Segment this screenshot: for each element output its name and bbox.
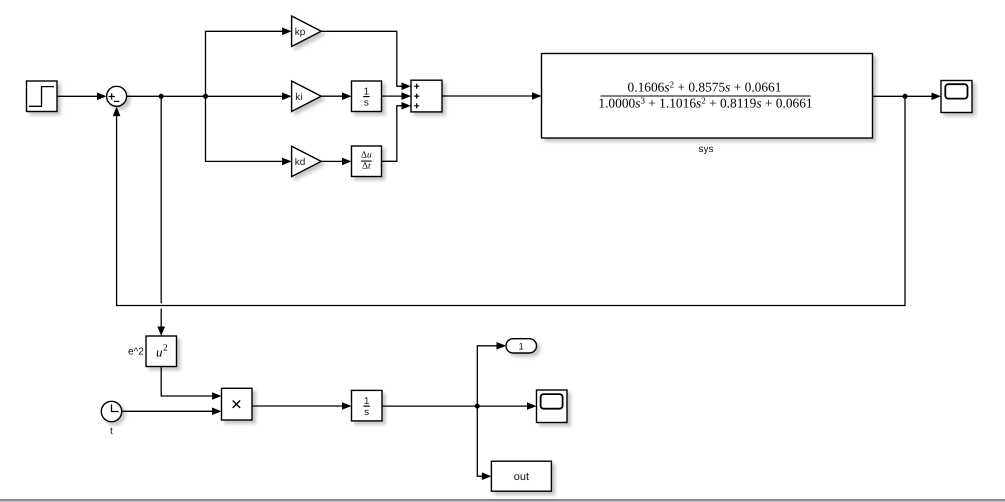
wire step to sum — [57, 93, 107, 101]
wire sum to branch node (error signal) — [127, 93, 292, 101]
gain ki — [292, 81, 322, 112]
wire kd to derivative — [321, 158, 351, 166]
square block u^2 — [146, 336, 177, 367]
outport 1 — [506, 339, 537, 353]
wire u^2 to product — [161, 367, 221, 400]
integrator block 1/s bottom — [352, 390, 383, 421]
node dot output — [903, 94, 908, 99]
wire node to out block — [477, 406, 491, 480]
wire sum2 to plant — [442, 92, 542, 100]
svg-text:e^2: e^2 — [128, 347, 144, 358]
svg-text:2: 2 — [163, 344, 168, 354]
wire branch to kd — [206, 96, 292, 165]
wire integrator to sum2 — [382, 92, 412, 100]
out block — [491, 461, 551, 491]
svg-text:u: u — [156, 345, 163, 360]
svg-text:t: t — [110, 426, 113, 437]
wire ki to integrator — [321, 92, 351, 100]
svg-text:sys: sys — [699, 144, 714, 155]
svg-text:1: 1 — [364, 396, 370, 407]
label sys — [699, 144, 714, 155]
svg-text:Δt: Δt — [362, 162, 371, 172]
clock block — [101, 401, 121, 421]
step source block — [27, 81, 58, 112]
wire clock to product — [122, 408, 222, 416]
wire derivative to sum2 — [382, 102, 412, 161]
sum block S2 — [411, 80, 442, 112]
node dot e-branch — [159, 94, 164, 99]
svg-text:1: 1 — [364, 86, 370, 97]
transfer function plant sys — [542, 54, 873, 139]
label e^2 — [128, 347, 144, 358]
svg-text:s: s — [364, 97, 369, 108]
gain kp — [292, 16, 322, 47]
svg-text:ki: ki — [295, 92, 302, 103]
feedback wire — [113, 96, 905, 305]
bottom window border — [0, 499, 1005, 502]
wire plant to scope — [873, 93, 942, 101]
wire branch to kp — [206, 28, 292, 97]
svg-text:1.0000s3 + 1.1016s2 + 0.8119s: 1.0000s3 + 1.1016s2 + 0.8119s + 0.0661 — [598, 96, 812, 111]
svg-text:0.1606s2 + 0.8575s + 0.0661: 0.1606s2 + 0.8575s + 0.0661 — [628, 80, 782, 95]
svg-text:s: s — [364, 407, 369, 418]
wire error to square (with hop gap) — [157, 96, 165, 336]
svg-text:kd: kd — [295, 157, 306, 168]
scope block top — [941, 81, 972, 113]
node dot bottom — [475, 404, 480, 409]
sum junction S1 — [107, 86, 127, 106]
derivative block du/dt — [352, 146, 382, 177]
svg-text:kp: kp — [295, 27, 306, 38]
gain kd — [292, 146, 322, 176]
wire integrator2 to scope2 — [382, 402, 537, 410]
svg-text:1: 1 — [519, 341, 524, 352]
svg-text:Δu: Δu — [361, 151, 372, 161]
svg-text:out: out — [514, 471, 529, 483]
product block — [222, 388, 253, 420]
wire kp to sum2 — [321, 31, 411, 90]
wire node to outport — [477, 342, 506, 406]
scope block bottom — [537, 390, 568, 423]
node dot pid-branch — [203, 94, 208, 99]
wire product to integrator2 — [252, 402, 352, 410]
integrator block 1/s — [352, 81, 382, 112]
label t — [110, 426, 113, 437]
